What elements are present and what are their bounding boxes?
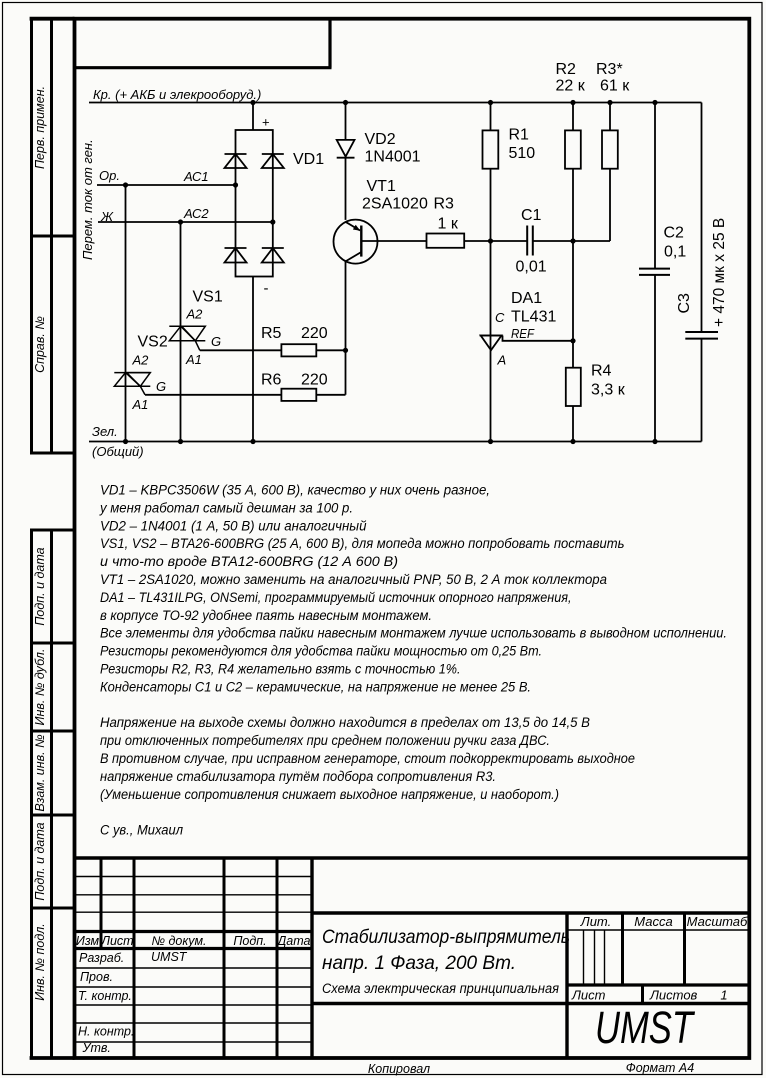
svg-text:Лит.: Лит.	[580, 914, 611, 929]
svg-text:220: 220	[301, 372, 328, 389]
svg-text:R1: R1	[509, 127, 530, 144]
wire: VD2 cathode to VT1 emitter	[345, 158, 347, 220]
bridge rectifier VD1	[225, 130, 284, 277]
svg-text:(Уменьшение сопротивления сниж: (Уменьшение сопротивления снижает выходн…	[100, 787, 559, 802]
svg-text:АС2: АС2	[183, 206, 209, 221]
svg-text:+: +	[262, 115, 270, 130]
svg-text:VT1 – 2SA1020, можно заменить: VT1 – 2SA1020, можно заменить на аналоги…	[100, 572, 607, 587]
wire: VT1 base lead	[361, 240, 426, 242]
svg-text:0,1: 0,1	[664, 244, 686, 261]
svg-text:Н. контр.: Н. контр.	[78, 1025, 134, 1039]
wire: AC2 input	[98, 221, 273, 223]
svg-text:Формат А4: Формат А4	[626, 1061, 694, 1075]
resistor R1 (510)	[483, 103, 499, 169]
thyristor VS1	[169, 326, 205, 350]
svg-text:1 к: 1 к	[438, 216, 459, 233]
wire: bottom common bus (Зел.)	[89, 441, 702, 443]
svg-text:-: -	[264, 280, 269, 297]
svg-text:R6: R6	[261, 372, 282, 389]
svg-text:A2: A2	[132, 353, 150, 368]
svg-text:Изм: Изм	[76, 934, 100, 948]
resistor R3* (61 к)	[602, 103, 618, 169]
svg-text:VD2: VD2	[365, 131, 396, 148]
svg-text:A1: A1	[185, 352, 202, 367]
svg-text:UMST: UMST	[151, 950, 188, 964]
svg-text:№ докум.: № докум.	[151, 934, 206, 948]
svg-text:при отключенных потребителях п: при отключенных потребителях при среднем…	[100, 733, 550, 748]
svg-text:Подп.: Подп.	[233, 934, 266, 948]
svg-text:напряжение стабилизатора путём: напряжение стабилизатора путём подбора с…	[100, 769, 496, 784]
svg-text:Инв. № дубл.: Инв. № дубл.	[33, 649, 47, 726]
svg-text:VD1 – KBPC3506W (35 А, 600 В),: VD1 – KBPC3506W (35 А, 600 В), качество …	[100, 483, 490, 498]
wire: R3 to C1	[464, 240, 527, 242]
capacitor C1	[527, 226, 533, 256]
svg-text:1N4001: 1N4001	[365, 149, 421, 166]
wire: R3* lower lead	[609, 169, 611, 241]
svg-text:A1: A1	[132, 397, 149, 412]
wire: R2 lower lead to R4	[572, 169, 574, 368]
lit/massa/masshtab cells	[567, 929, 749, 931]
wire: bridge minus lead	[252, 277, 254, 442]
svg-text:напр. 1 Фаза, 200 Вт.: напр. 1 Фаза, 200 Вт.	[322, 953, 516, 974]
wire: DA1 anode to bottom bus	[490, 350, 492, 441]
svg-text:R3*: R3*	[596, 61, 623, 78]
wire: bridge plus lead	[252, 103, 254, 131]
svg-text:G: G	[211, 334, 221, 349]
svg-text:61 к: 61 к	[600, 78, 630, 95]
svg-text:Резисторы рекомендуются для уд: Резисторы рекомендуются для удобства пай…	[100, 644, 542, 659]
wire: VD2 anode lead	[345, 103, 347, 140]
wire: VS2 branch vertical	[125, 185, 127, 442]
svg-text:АС1: АС1	[183, 169, 209, 184]
resistor R3 (1 к)	[427, 234, 465, 248]
svg-text:REF: REF	[511, 326, 535, 341]
svg-text:(Общий): (Общий)	[92, 444, 144, 459]
svg-text:R2: R2	[556, 61, 577, 78]
transistor VT1	[334, 220, 378, 264]
svg-text:22 к: 22 к	[556, 78, 586, 95]
signature rows thin lines	[75, 967, 313, 969]
wire: VT1 collector vertical	[345, 261, 347, 394]
svg-text:Пров.: Пров.	[80, 970, 113, 984]
svg-text:Взам. инв. №: Взам. инв. №	[33, 734, 47, 812]
svg-text:у меня работал самый дешман за: у меня работал самый дешман за 100 р.	[99, 500, 353, 515]
svg-text:VS1: VS1	[193, 289, 223, 306]
svg-text:220: 220	[301, 325, 328, 342]
svg-text:Перем. ток от ген.: Перем. ток от ген.	[80, 139, 95, 260]
svg-text:Масса: Масса	[634, 914, 672, 929]
junction dots top bus	[250, 100, 657, 105]
svg-text:Дата: Дата	[276, 934, 311, 948]
svg-text:Копировал: Копировал	[368, 1062, 430, 1076]
left margin column boxes (lower set)	[30, 530, 33, 1058]
svg-text:Лист: Лист	[100, 934, 133, 948]
resistor R4 (3,3 к)	[566, 368, 581, 406]
svg-text:VD1: VD1	[293, 151, 324, 168]
wire: R1 lower lead to DA1	[490, 169, 492, 351]
svg-text:Ж: Ж	[100, 209, 114, 224]
svg-text:Подп. и дата: Подп. и дата	[33, 547, 47, 625]
wire: VS1 branch vertical	[180, 222, 182, 442]
wire: C1 to R3* drop	[533, 240, 610, 242]
svg-text:Листов: Листов	[649, 988, 698, 1003]
svg-text:С ув., Михаил: С ув., Михаил	[100, 823, 183, 838]
wire: VS1 gate to R5	[200, 349, 282, 351]
svg-text:DA1 – TL431ILPG, ONSemi, прогр: DA1 – TL431ILPG, ONSemi, программируемый…	[100, 590, 572, 605]
svg-text:A: A	[497, 353, 507, 368]
svg-text:R3: R3	[434, 196, 455, 213]
svg-text:510: 510	[509, 145, 536, 162]
header row thick lines	[75, 930, 313, 933]
svg-text:R5: R5	[261, 325, 282, 342]
svg-text:VS1, VS2 – BTA26-600BRG (25 А,: VS1, VS2 – BTA26-600BRG (25 А, 600 В), д…	[100, 536, 625, 551]
svg-text:Разраб.: Разраб.	[79, 951, 124, 965]
svg-text:и что-то вроде BTA12-600BRG (1: и что-то вроде BTA12-600BRG (12 А 600 В)	[100, 554, 398, 569]
svg-text:Зел.: Зел.	[92, 424, 118, 439]
svg-text:VS2: VS2	[138, 334, 168, 351]
svg-text:VD2 – 1N4001 (1 А, 50 В) или а: VD2 – 1N4001 (1 А, 50 В) или аналогичный	[100, 518, 367, 533]
diode VD2	[337, 140, 355, 158]
svg-text:Резисторы R2, R3, R4 желательн: Резисторы R2, R3, R4 желательно взять с …	[100, 662, 461, 677]
left margin column boxes (upper pair)	[30, 19, 33, 453]
title block vertical dividers	[100, 858, 103, 949]
svg-text:Схема электрическая принципиал: Схема электрическая принципиальная	[322, 981, 559, 996]
svg-text:R4: R4	[591, 363, 612, 380]
svg-text:Стабилизатор-выпрямитель: Стабилизатор-выпрямитель	[322, 927, 570, 948]
wire: DA1 REF lead	[503, 336, 574, 341]
svg-text:Лист: Лист	[571, 988, 606, 1003]
wire: top +12V bus (Кр.)	[89, 102, 702, 104]
svg-text:TL431: TL431	[511, 309, 556, 326]
junction dots bottom bus	[123, 439, 658, 444]
svg-text:Перв. примен.: Перв. примен.	[33, 86, 47, 169]
wire: R4 to bottom bus	[572, 406, 574, 442]
svg-text:Инв. № подл.: Инв. № подл.	[33, 923, 47, 1001]
svg-text:DA1: DA1	[511, 290, 542, 307]
wire: VS2 gate to R6	[145, 394, 281, 396]
svg-text:В противном случае, при исправ: В противном случае, при исправном генера…	[100, 751, 635, 766]
svg-text:Напряжение на выходе схемы дол: Напряжение на выходе схемы должно находи…	[100, 715, 590, 730]
reserve table thin rows	[75, 876, 313, 878]
svg-text:Кр. (+ АКБ и элекрооборуд.): Кр. (+ АКБ и элекрооборуд.)	[93, 87, 261, 102]
svg-text:3,3 к: 3,3 к	[591, 382, 626, 399]
wire: R6 to VT1 collector	[316, 394, 345, 396]
svg-text:Масштаб: Масштаб	[687, 914, 748, 929]
svg-text:С3: С3	[676, 293, 693, 314]
junction dots middle	[343, 238, 576, 353]
svg-text:Ор.: Ор.	[99, 168, 120, 183]
op-amp DA1 (TL431)	[480, 336, 503, 351]
svg-text:C1: C1	[521, 207, 542, 224]
svg-text:C2: C2	[664, 225, 685, 242]
resistor R6 (220)	[281, 389, 316, 401]
svg-text:VT1: VT1	[367, 178, 396, 195]
resistor R5 (220)	[281, 344, 316, 356]
svg-text:UMST: UMST	[595, 1002, 696, 1053]
capacitor C2	[639, 103, 670, 442]
svg-text:0,01: 0,01	[516, 259, 547, 276]
svg-text:+ 470 мк x 25 В: + 470 мк x 25 В	[711, 218, 728, 327]
svg-text:2SA1020: 2SA1020	[362, 196, 428, 213]
svg-text:C: C	[495, 310, 505, 325]
top-left reserved box	[75, 66, 332, 69]
svg-text:Т. контр.: Т. контр.	[78, 989, 132, 1003]
svg-text:A2: A2	[186, 307, 204, 322]
wire: R5 to VT1 collector	[316, 349, 345, 351]
title block top line	[75, 856, 750, 859]
thyristor VS2	[114, 373, 150, 395]
svg-text:1: 1	[720, 988, 727, 1003]
capacitor C3 (electrolytic)	[685, 103, 718, 442]
svg-text:Конденсаторы С1 и С2 – керамич: Конденсаторы С1 и С2 – керамические, на …	[100, 679, 531, 694]
wire: AC1 input	[97, 184, 236, 186]
svg-text:Подп. и дата: Подп. и дата	[33, 822, 47, 900]
junction dots AC wires	[123, 182, 276, 224]
svg-text:Утв.: Утв.	[82, 1041, 111, 1055]
resistor R2 (22 к)	[565, 103, 581, 169]
svg-text:в корпусе TO-92 удобнее паять: в корпусе TO-92 удобнее паять навесным м…	[100, 608, 432, 623]
right part of title block	[312, 911, 749, 914]
svg-text:G: G	[156, 379, 166, 394]
svg-text:Все элементы для удобства пайк: Все элементы для удобства пайки навесным…	[100, 626, 727, 641]
svg-text:Справ. №: Справ. №	[33, 316, 47, 373]
